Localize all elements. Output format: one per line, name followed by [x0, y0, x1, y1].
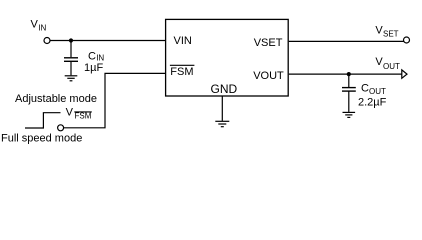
wire VIN input	[50, 40, 166, 42]
svg-text:OUT: OUT	[369, 87, 386, 96]
svg-text:IN: IN	[38, 24, 46, 33]
svg-text:Full speed mode: Full speed mode	[1, 133, 82, 145]
node VFSM label	[66, 107, 92, 121]
arrow VOUT terminal	[402, 70, 407, 78]
ground for IC	[215, 121, 229, 126]
terminal VIN	[44, 38, 50, 44]
svg-text:FSM: FSM	[170, 66, 193, 78]
ground for CIN	[65, 76, 78, 81]
junction node B	[347, 72, 351, 76]
node VSET label	[375, 24, 398, 38]
svg-text:2.2µF: 2.2µF	[358, 96, 387, 108]
svg-text:SET: SET	[383, 29, 399, 38]
wire GND pin	[221, 96, 223, 121]
capacitor C2 COUT	[342, 74, 356, 112]
svg-text:FSM: FSM	[75, 111, 92, 120]
pin label FSM with overline	[170, 65, 195, 78]
label COUT 2.2uF	[358, 83, 387, 109]
terminal VFSM	[58, 125, 64, 131]
svg-text:V: V	[66, 107, 74, 119]
junction node A	[69, 38, 73, 42]
svg-text:Adjustable mode: Adjustable mode	[15, 93, 97, 105]
node VOUT label	[375, 56, 400, 71]
svg-text:VIN: VIN	[174, 35, 192, 47]
waveform step symbol	[25, 113, 61, 128]
svg-text:GND: GND	[211, 82, 238, 96]
svg-text:VOUT: VOUT	[253, 70, 284, 82]
wire VOUT output	[289, 73, 402, 75]
wire VSET output	[289, 40, 404, 42]
svg-text:C: C	[361, 83, 369, 95]
svg-text:1µF: 1µF	[84, 62, 103, 74]
svg-text:C: C	[88, 50, 96, 62]
svg-text:VSET: VSET	[254, 37, 283, 49]
wire FSM input	[64, 73, 166, 127]
node VIN label	[31, 19, 47, 33]
label CIN 1uF	[84, 50, 104, 74]
terminal VSET	[404, 37, 410, 43]
svg-text:V: V	[31, 19, 39, 31]
capacitor C1 CIN	[64, 41, 78, 76]
svg-text:OUT: OUT	[383, 62, 400, 71]
op IC U1 box	[166, 19, 289, 96]
ground for COUT	[343, 112, 356, 117]
